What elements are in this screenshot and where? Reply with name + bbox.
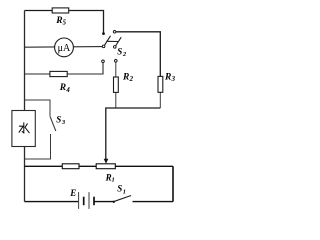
node F bottom-right contact bbox=[115, 60, 118, 63]
wire bottom left segment to battery bbox=[25, 201, 79, 203]
wire junction R2 R3 to wiper bbox=[106, 108, 161, 159]
switch S1 bbox=[113, 201, 115, 203]
svg-text:R: R bbox=[55, 16, 62, 26]
node A top-left contact (dot) bbox=[102, 32, 105, 35]
wire right vertical bbox=[172, 166, 174, 201]
water box (water calorimeter) bbox=[12, 111, 35, 147]
S2 tie bar bbox=[106, 40, 118, 42]
resistor R2 bbox=[114, 77, 119, 92]
svg-text:R: R bbox=[164, 72, 171, 82]
switch S3 bbox=[50, 116, 56, 131]
resistor R3 bbox=[158, 76, 163, 92]
svg-text:E: E bbox=[69, 188, 76, 198]
wire R4 branch bbox=[25, 63, 104, 74]
S2 blade 2 bbox=[116, 37, 122, 46]
svg-text:1: 1 bbox=[123, 188, 126, 195]
wire battery to S1 bbox=[94, 201, 114, 203]
wire S3 bottom connector bbox=[25, 134, 51, 159]
wire S2 to R3 top bbox=[116, 32, 160, 77]
wire R2 top stub bbox=[115, 62, 117, 77]
svg-text:2: 2 bbox=[129, 76, 134, 83]
wire R3 bottom stub bbox=[159, 92, 161, 108]
svg-text:S: S bbox=[117, 184, 122, 194]
fixed resistor on R1 line (unlabeled) bbox=[62, 164, 79, 169]
resistor R5 bbox=[52, 8, 68, 13]
wire S3 top branch bbox=[25, 100, 51, 116]
node C middle-left pole contact bbox=[102, 45, 105, 48]
wire microammeter branch bbox=[25, 46, 104, 49]
svg-text:μA: μA bbox=[58, 43, 71, 54]
microammeter U1 bbox=[55, 38, 74, 57]
node E bottom-left contact bbox=[102, 60, 105, 63]
svg-text:3: 3 bbox=[171, 76, 176, 83]
svg-text:2: 2 bbox=[122, 51, 127, 58]
rheostat R1 bbox=[96, 164, 115, 169]
wire R1 line bbox=[25, 165, 174, 167]
wire left vertical upper bbox=[24, 11, 26, 111]
svg-text:S: S bbox=[56, 114, 61, 124]
svg-text:4: 4 bbox=[65, 87, 70, 94]
svg-text:3: 3 bbox=[61, 119, 66, 126]
node B top-right contact bbox=[113, 31, 116, 34]
svg-text:S: S bbox=[117, 46, 122, 56]
svg-text:5: 5 bbox=[63, 20, 67, 27]
resistor R4 bbox=[50, 71, 67, 76]
S2 blade 1 bbox=[104, 36, 110, 46]
wire top horizontal from left vertical to S2 top bbox=[25, 11, 104, 33]
wire left vertical lower bbox=[24, 147, 26, 202]
wire S1 to right corner bbox=[133, 201, 174, 203]
node D middle-right pole contact bbox=[114, 46, 117, 49]
svg-text:R: R bbox=[122, 73, 129, 83]
wire R2 bottom stub bbox=[115, 92, 117, 108]
svg-text:R: R bbox=[59, 83, 66, 93]
wiper arrowhead onto R1 bbox=[104, 159, 109, 164]
battery E bbox=[79, 192, 94, 209]
svg-text:1: 1 bbox=[112, 177, 115, 184]
glyph 水 (drawn) bbox=[19, 123, 29, 133]
